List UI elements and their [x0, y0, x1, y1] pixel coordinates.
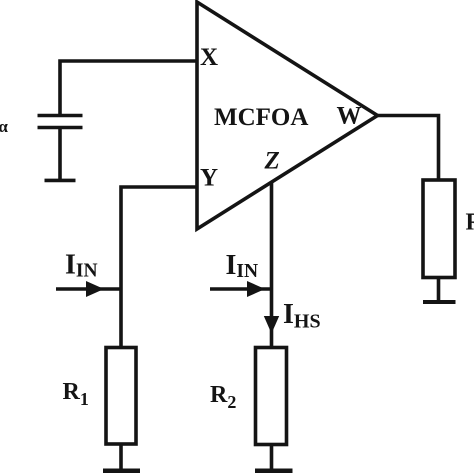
arrowhead of I_IN left: [86, 281, 104, 297]
wire W output (apex to load resistor): [378, 116, 439, 181]
svg-text:IHS: IHS: [283, 299, 321, 333]
wire R1 to ground: [119, 444, 123, 470]
svg-text:R2: R2: [210, 382, 236, 412]
wire R2 to ground: [270, 445, 274, 471]
resistor R1 body: [106, 348, 136, 445]
wire RL to ground: [437, 278, 441, 301]
svg-text:R1: R1: [63, 379, 89, 409]
wire Y input (from R1 top node to Y pin): [121, 187, 197, 347]
svg-text:Z: Z: [264, 148, 280, 175]
wire current arrow I_IN right: [210, 287, 270, 291]
svg-text:Y: Y: [200, 165, 218, 192]
ground (R1): [103, 469, 140, 474]
arrowhead of I_IN right: [247, 281, 265, 297]
wire capacitor to ground: [58, 128, 62, 181]
svg-text:X: X: [200, 44, 218, 71]
svg-text:W: W: [337, 103, 362, 130]
capacitor Ca top plate: [38, 114, 83, 118]
svg-text:Cα: Cα: [0, 107, 8, 136]
wire current arrow I_IN left: [56, 287, 120, 291]
arrowhead of I_HS (downward): [264, 316, 279, 334]
resistor RL body: [423, 180, 455, 278]
wire X input (from capacitor node to X pin): [60, 61, 197, 115]
ground (RL): [423, 300, 456, 304]
capacitor Ca bottom plate: [38, 126, 83, 130]
op-amp U1 (MCFOA triangle): [197, 2, 378, 229]
svg-text:IIN: IIN: [226, 250, 259, 282]
ground (R2): [255, 469, 293, 474]
svg-text:IIN: IIN: [65, 250, 98, 282]
svg-text:RL: RL: [466, 210, 474, 239]
wire Z output (from hypotenuse down to R2): [270, 183, 274, 348]
resistor R2 body: [256, 348, 287, 445]
ground (capacitor): [45, 179, 76, 183]
svg-text:MCFOA: MCFOA: [214, 104, 308, 131]
